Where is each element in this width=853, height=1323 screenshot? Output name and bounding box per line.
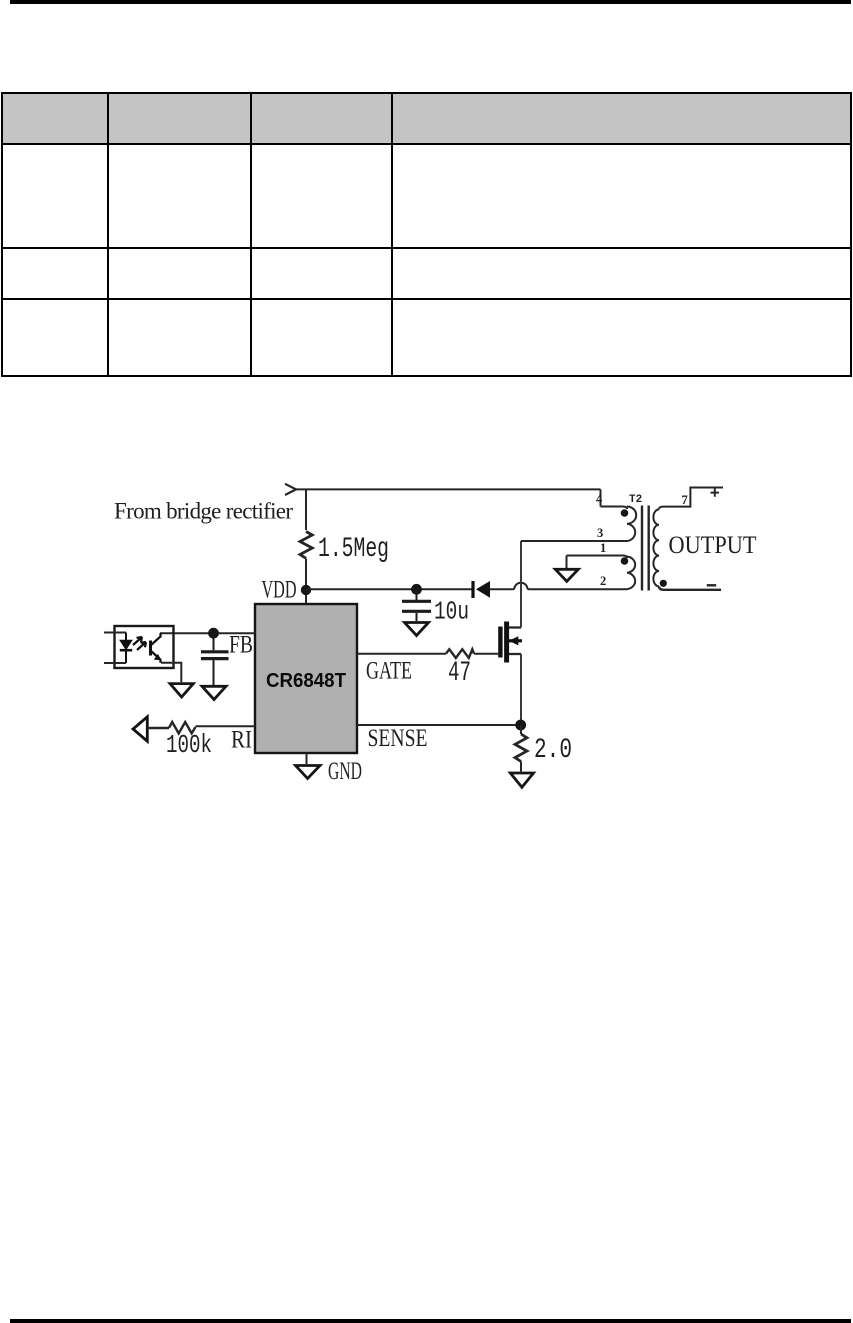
node SENSE dot (515, 720, 526, 731)
svg-text:GATE: GATE (366, 658, 412, 685)
top rule bar (10, 0, 851, 4)
wire hop to aux winding (528, 588, 628, 590)
wire source to sense (520, 654, 522, 725)
terminal arrow RI (133, 717, 147, 741)
capacitor FB filter (201, 633, 229, 685)
IC U1 CR6848T body (255, 604, 357, 753)
svg-text:VDD: VDD (262, 577, 297, 604)
svg-text:1.5Meg: 1.5Meg (318, 534, 389, 565)
optocoupler cathode lead (104, 662, 126, 664)
node FB dot (208, 628, 219, 639)
wire arrow to 100k (147, 727, 169, 730)
wire diode to hop (490, 588, 514, 590)
wire top rail (294, 488, 601, 490)
transistor Q1 drain stub (509, 626, 521, 628)
wire pin4 lead (601, 507, 628, 510)
svg-text:GND: GND (328, 758, 362, 785)
svg-text:FB: FB (229, 632, 253, 659)
table header bottom line (1, 143, 851, 145)
wire FB net (160, 632, 255, 634)
resistor 1.5Meg (300, 532, 312, 559)
ground GND under IC (296, 766, 321, 779)
label minus (707, 584, 716, 586)
wire secondary top lead (659, 488, 723, 510)
wire hop over drain (514, 583, 527, 590)
diode D1 cathode bar (471, 581, 474, 598)
optocoupler light arrow 1 (133, 637, 142, 645)
capacitor 10u (402, 589, 431, 621)
optocoupler U2 box (115, 626, 174, 668)
svg-text:1: 1 (600, 541, 606, 555)
svg-text:OUTPUT: OUTPUT (669, 532, 757, 559)
wire top rail drop (600, 489, 602, 506)
transistor Q1 body arrow (509, 639, 522, 642)
wire drain to transformer (520, 541, 522, 628)
wire resistor to gate (474, 653, 498, 655)
svg-text:2.0: 2.0 (534, 735, 572, 766)
transformer core line 2 (648, 506, 650, 591)
svg-text:100k: 100k (166, 730, 212, 760)
svg-text:From bridge rectifier: From bridge rectifier (114, 499, 293, 524)
transformer T2 primary winding (627, 507, 636, 542)
svg-text:T2: T2 (629, 494, 642, 506)
svg-text:10u: 10u (434, 597, 469, 627)
node 10u junction dot (411, 584, 422, 595)
table row line 3 (1, 298, 851, 300)
label plus (711, 488, 720, 496)
svg-text:CR6848T: CR6848T (266, 669, 346, 692)
transistor Q1 source stub (509, 653, 521, 655)
resistor 100k (169, 722, 196, 733)
optocoupler LED (120, 633, 132, 664)
wire GATE pin to resistor (357, 653, 446, 655)
wire 1.5Meg top lead (305, 489, 307, 530)
ground for optocoupler (170, 684, 193, 697)
svg-text:4: 4 (596, 492, 603, 506)
wire SENSE pin (357, 724, 521, 726)
table column line 1 (107, 92, 109, 377)
ground for FB capacitor (202, 686, 226, 699)
transformer T2 aux winding (627, 557, 635, 590)
svg-text:RI: RI (231, 727, 252, 754)
table column line 2 (250, 92, 252, 377)
transformer primary dot (621, 509, 629, 517)
table outer border (1, 92, 852, 377)
optocoupler light arrow 2 (137, 642, 146, 650)
transformer aux dot (621, 557, 629, 565)
svg-text:47: 47 (448, 658, 471, 689)
transistor Q1 MOSFET channel bar (504, 622, 509, 663)
diode D1 body (476, 581, 490, 598)
wire 1.5Meg bottom lead (305, 559, 307, 605)
ground for sense resistor (510, 773, 533, 787)
ground for 10u (405, 623, 429, 636)
table column line 3 (391, 92, 393, 377)
wire sense resistor bottom lead (520, 762, 522, 772)
input arrow (285, 484, 296, 495)
bottom rule bar (10, 1319, 851, 1323)
transistor Q1 MOSFET gate bar (498, 627, 502, 658)
resistor 2.0 (515, 734, 527, 762)
node VDD dot (301, 585, 311, 595)
transformer secondary dot (660, 580, 667, 587)
wire 100k to RI pin (196, 725, 256, 727)
table header row fill (3, 94, 850, 143)
optocoupler anode lead (104, 632, 126, 634)
resistor 47 (446, 649, 474, 658)
table row line 2 (1, 247, 851, 249)
wire primary return (521, 540, 627, 542)
wire GND pin (306, 753, 308, 764)
svg-text:SENSE: SENSE (368, 725, 428, 752)
wire sense resistor top lead (520, 725, 522, 734)
svg-text:2: 2 (600, 574, 606, 588)
transformer core line 1 (641, 506, 643, 591)
optocoupler phototransistor (151, 633, 161, 663)
wire aux pin1 lead (567, 556, 628, 559)
ground for aux winding (566, 556, 568, 569)
wire VDD rail to diode (306, 588, 472, 590)
svg-text:7: 7 (682, 493, 688, 507)
transformer T2 secondary winding (653, 509, 659, 586)
wire opto emitter to ground (161, 663, 181, 683)
wire secondary bottom lead (659, 586, 721, 589)
svg-text:3: 3 (597, 526, 603, 540)
